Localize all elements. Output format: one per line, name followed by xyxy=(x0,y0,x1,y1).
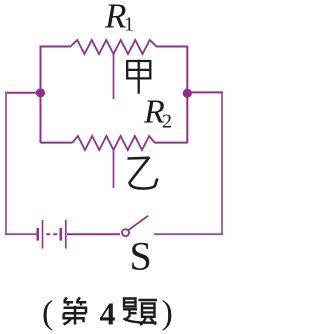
switch S lever xyxy=(128,216,148,231)
svg-text:1: 1 xyxy=(124,14,134,36)
label yi (Chinese: second) xyxy=(128,158,158,189)
battery dashed link xyxy=(46,233,57,235)
leader line from R1 to jia label xyxy=(113,53,115,99)
wire outer right vertical xyxy=(221,92,223,235)
label R1 xyxy=(104,0,134,36)
resistor R2 xyxy=(72,136,155,150)
battery cell 2 short plate xyxy=(59,228,62,241)
wire bottom left to battery xyxy=(5,233,36,235)
wire top-left of parallel loop xyxy=(41,46,71,48)
svg-text:(: ( xyxy=(42,295,53,332)
svg-text:): ) xyxy=(162,295,173,332)
wire top-right of parallel loop xyxy=(157,46,188,48)
wire right side of parallel loop xyxy=(186,46,188,144)
junction node right xyxy=(183,89,192,98)
wire from left node to outer left xyxy=(5,92,40,94)
wire left side of parallel loop xyxy=(40,46,42,144)
wire switch to outer right xyxy=(154,233,223,235)
junction node left xyxy=(36,88,45,97)
svg-text:4: 4 xyxy=(100,296,116,332)
wire from outer right to right node xyxy=(187,91,223,93)
leader line from R2 to yi label xyxy=(113,149,115,188)
label R2 xyxy=(143,94,172,133)
wire outer left vertical xyxy=(5,92,7,235)
svg-text:S: S xyxy=(130,234,152,279)
caption character di (ordinal marker) xyxy=(64,298,87,325)
label jia (Chinese: first) xyxy=(127,60,150,94)
battery cell 1 short plate xyxy=(36,228,39,241)
battery cell 1 long plate xyxy=(42,220,44,249)
svg-text:2: 2 xyxy=(162,111,172,133)
battery cell 2 long plate xyxy=(65,220,67,249)
resistor R1 xyxy=(70,40,157,54)
switch S pivot circle xyxy=(122,229,129,236)
wire battery to switch xyxy=(67,233,120,235)
wire bottom-right of parallel loop xyxy=(155,142,188,144)
wire bottom-left of parallel loop xyxy=(41,142,73,144)
caption character ti (problem) xyxy=(123,299,157,326)
